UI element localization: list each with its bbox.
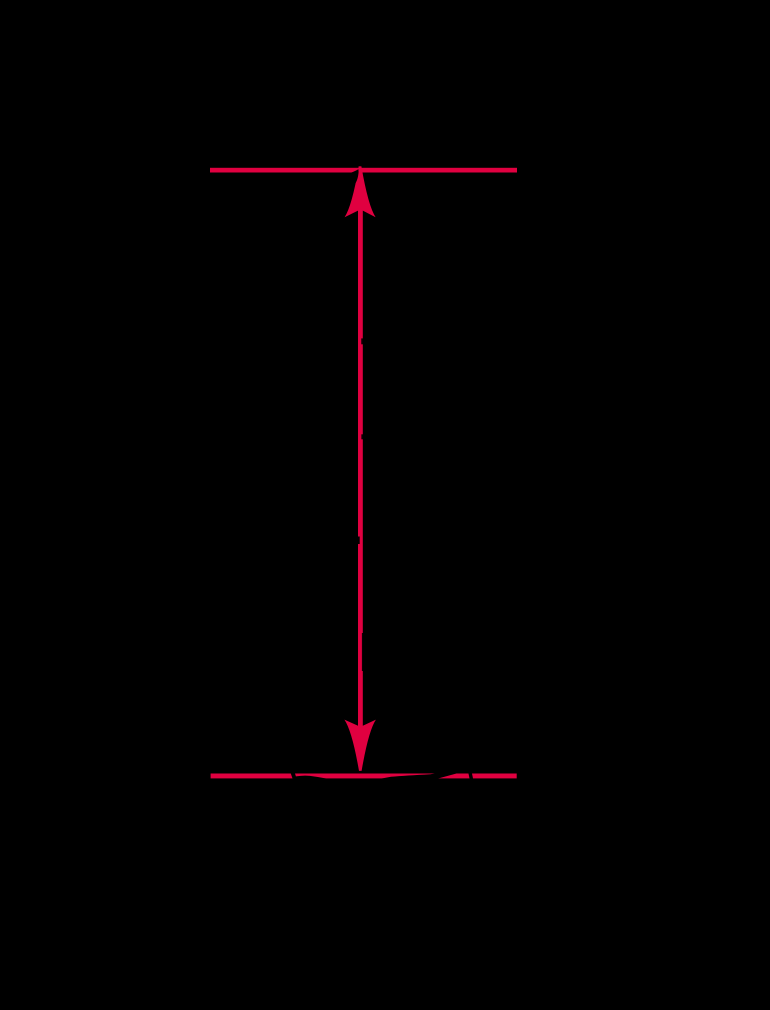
black bumper-lip band crossing ground line (right of arrow)	[380, 773, 458, 779]
black car body-line nick on shaft (upper right)	[361, 338, 363, 344]
black tire contact wedge under ground line (left of arrow)	[296, 776, 328, 779]
dimension arrow shaft	[358, 210, 363, 728]
top reference line (roof height datum)	[210, 168, 517, 173]
black car body-line nick on shaft (mid left)	[358, 537, 360, 545]
black rear-tire slash gap in ground line	[468, 773, 473, 779]
black car body-line thin nick on shaft (lower right)	[362, 633, 363, 671]
black shark-fin antenna silhouette cutting top line left of arrow tip	[346, 169, 358, 183]
ground reference line (bottom datum)	[211, 774, 517, 779]
arrowhead top (points up)	[345, 166, 376, 217]
black front-tire slash gap in ground line	[291, 773, 297, 779]
arrowhead bottom (points down)	[344, 720, 376, 771]
arrow tip bump above top line	[359, 166, 362, 168]
black car body-line nick on shaft (mid right)	[361, 434, 363, 439]
